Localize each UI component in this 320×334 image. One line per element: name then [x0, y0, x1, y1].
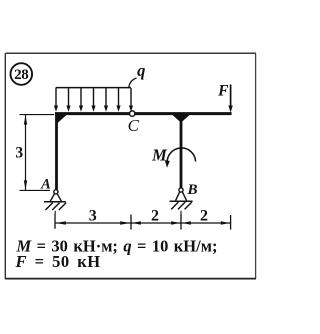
- svg-text:M: M: [151, 146, 168, 165]
- svg-text:2: 2: [200, 208, 208, 225]
- svg-text:q: q: [137, 61, 145, 80]
- svg-text:28: 28: [14, 67, 28, 83]
- svg-text:B: B: [186, 182, 197, 198]
- svg-text:3: 3: [89, 208, 97, 225]
- svg-text:3: 3: [15, 145, 23, 162]
- svg-text:F: F: [217, 83, 229, 100]
- svg-text:F = 50 кН: F = 50 кН: [15, 252, 101, 271]
- svg-text:2: 2: [151, 208, 159, 225]
- svg-text:C: C: [128, 116, 140, 135]
